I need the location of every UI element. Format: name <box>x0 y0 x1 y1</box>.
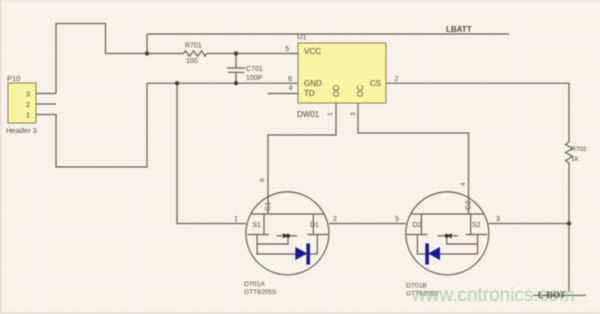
svg-text:D701A: D701A <box>244 281 265 288</box>
wire S1 drop <box>177 83 246 223</box>
svg-text:U1: U1 <box>297 32 307 41</box>
wire TD pin4 stub <box>268 93 299 95</box>
svg-text:OC: OC <box>356 85 365 97</box>
junction dot M1 gate bar <box>286 234 290 238</box>
wire GND return to P10 pin1 <box>36 83 147 167</box>
transistor Q1 D701A <box>246 192 329 275</box>
connector P10 <box>6 74 37 135</box>
svg-text:6: 6 <box>288 76 292 83</box>
svg-text:S1: S1 <box>252 222 261 229</box>
scan edge artifacts <box>0 1 600 3</box>
svg-text:G1: G1 <box>265 202 272 211</box>
svg-text:1: 1 <box>234 216 238 223</box>
wire S2 to R702 net <box>489 223 569 225</box>
capacitor C701 labels <box>246 66 263 82</box>
transistor Q2 D701B <box>406 192 489 275</box>
wire P10 pin2 stub <box>36 103 56 105</box>
substrate step <box>257 236 288 244</box>
wire LBATT rail <box>147 33 509 35</box>
svg-text:GND: GND <box>304 79 322 88</box>
svg-text:P10: P10 <box>7 74 20 83</box>
resistor R701 <box>184 51 207 56</box>
svg-text:C701: C701 <box>246 66 263 73</box>
wire U1 pin3 to G2 <box>358 103 469 214</box>
wire C701 top lead <box>235 54 237 69</box>
diode D2 body <box>427 243 440 264</box>
svg-text:VCC: VCC <box>304 47 321 56</box>
svg-text:TD: TD <box>304 89 315 98</box>
node LBATT/R701 junction <box>145 51 149 55</box>
wire D1 to D2 <box>329 223 406 225</box>
node S2/R702 junction <box>567 221 571 225</box>
svg-text:5: 5 <box>395 216 399 223</box>
svg-text:100P: 100P <box>246 75 263 82</box>
chord D2-S2 <box>411 213 483 215</box>
wire CS pin2 to R702 <box>386 83 569 142</box>
channel stubs <box>263 214 265 235</box>
svg-text:3: 3 <box>350 112 357 116</box>
svg-text:3: 3 <box>26 90 30 99</box>
svg-text:DW01: DW01 <box>297 110 320 119</box>
wire C701 bottom lead <box>235 72 237 83</box>
arrow to body <box>283 233 288 238</box>
wire P10 pin3 stub <box>36 93 56 95</box>
svg-text:4: 4 <box>289 85 293 92</box>
wire pin3 riser <box>56 24 147 94</box>
svg-text:3: 3 <box>496 216 500 223</box>
svg-text:GTT8205S: GTT8205S <box>244 289 277 296</box>
wire LBATT riser <box>146 34 148 54</box>
channel stubs <box>470 214 472 235</box>
wire LBOT underline <box>533 294 586 296</box>
body diode frame <box>417 235 477 255</box>
svg-text:100: 100 <box>186 58 198 65</box>
svg-text:S2: S2 <box>472 222 481 229</box>
svg-text:1: 1 <box>327 112 334 116</box>
svg-text:D1: D1 <box>310 222 319 229</box>
body diode frame <box>257 235 317 255</box>
junction dot M2 gate bar <box>445 234 449 238</box>
svg-text:5: 5 <box>285 46 289 53</box>
node S1 drop junction <box>175 81 179 85</box>
wire R702 bottom <box>568 163 570 292</box>
watermark www.cntronics.com <box>412 285 575 307</box>
gate bar <box>438 235 445 237</box>
svg-text:4: 4 <box>460 182 467 186</box>
IC U1 DW01 <box>285 32 398 119</box>
svg-text:2: 2 <box>333 216 337 223</box>
chord S1-D1 <box>251 213 323 215</box>
svg-text:Header 3: Header 3 <box>6 126 37 135</box>
wire GND rail <box>147 82 298 84</box>
svg-text:G2: G2 <box>466 201 473 210</box>
diode D1 body <box>295 243 308 264</box>
node C701 bottom junction <box>234 81 238 85</box>
substrate step <box>447 236 478 244</box>
svg-text:R702: R702 <box>571 146 587 153</box>
resistor R701 labels <box>185 43 202 66</box>
svg-text:OD: OD <box>332 85 341 97</box>
svg-text:1: 1 <box>26 111 30 120</box>
wire R701 to U1 pin5 <box>207 53 299 55</box>
svg-text:6: 6 <box>259 178 266 182</box>
svg-text:2: 2 <box>395 76 399 83</box>
gate bar <box>277 235 284 237</box>
svg-text:CS: CS <box>370 79 381 88</box>
wire U1 pin1 to G1 <box>268 103 336 214</box>
svg-text:1K: 1K <box>571 156 580 163</box>
node C701 top junction <box>234 51 238 55</box>
svg-text:D2: D2 <box>413 222 422 229</box>
capacitor C701 <box>227 68 245 72</box>
svg-text:LBATT: LBATT <box>446 25 472 34</box>
svg-text:R701: R701 <box>185 43 202 50</box>
resistor R702 <box>566 142 573 163</box>
wire R701 left <box>147 53 184 55</box>
resistor R702 labels <box>571 146 587 163</box>
svg-text:2: 2 <box>26 100 30 109</box>
